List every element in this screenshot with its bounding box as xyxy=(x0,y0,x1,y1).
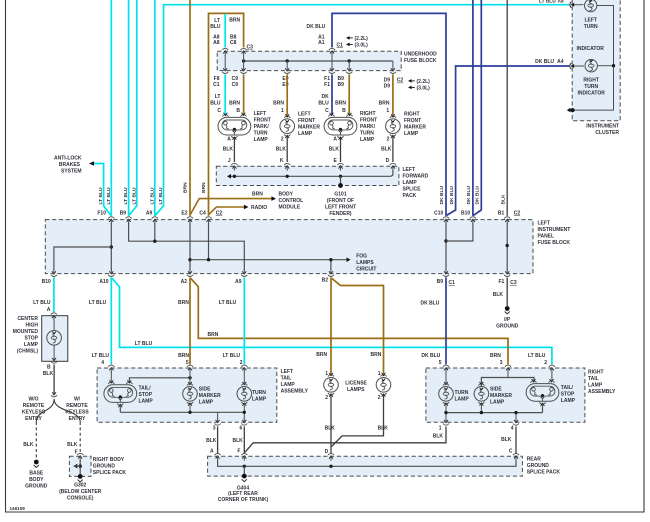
svg-text:MODULE: MODULE xyxy=(279,205,301,211)
ground G302 xyxy=(78,474,83,479)
svg-text:TURN: TURN xyxy=(584,24,598,30)
svg-text:RADIO: RADIO xyxy=(251,205,267,211)
svg-text:6: 6 xyxy=(240,425,243,431)
svg-text:A8: A8 xyxy=(558,0,564,4)
wire BLK left tail 6 to rear ground F xyxy=(243,427,245,454)
svg-text:(2.2L): (2.2L) xyxy=(417,79,431,85)
svg-text:A: A xyxy=(210,448,214,454)
left tail internal ground bus xyxy=(119,405,121,412)
instrument cluster connector A4 (right turn feed) xyxy=(570,63,571,69)
right side marker lamp xyxy=(474,387,489,402)
wire DK BLU B9 to right tail lamp 5 xyxy=(445,277,447,364)
svg-text:B2: B2 xyxy=(322,277,329,283)
wire LT BLU F8/C1 to left front park/turn lamp C xyxy=(224,74,226,114)
svg-text:TAIL: TAIL xyxy=(281,376,292,382)
svg-text:BODY: BODY xyxy=(279,192,294,198)
svg-text:A: A xyxy=(47,307,51,313)
wire BRN loop to C4 and underhood C3 pin B8 xyxy=(209,13,244,216)
wire LT BLU to F10 (from top) xyxy=(110,0,112,216)
svg-text:GROUND: GROUND xyxy=(25,484,48,490)
svg-text:A9: A9 xyxy=(146,210,153,216)
svg-text:LEFT: LEFT xyxy=(281,369,294,375)
base body ground symbol xyxy=(34,460,39,465)
svg-text:G101: G101 xyxy=(334,192,346,198)
left instrument panel fuse block box xyxy=(45,220,533,274)
svg-text:BRN: BRN xyxy=(208,332,219,338)
left tail internal top bus xyxy=(129,378,190,383)
svg-text:C2: C2 xyxy=(397,78,404,84)
svg-text:BRN: BRN xyxy=(229,100,240,106)
svg-text:MARKER: MARKER xyxy=(490,393,512,399)
svg-text:UNDERHOOD: UNDERHOOD xyxy=(404,52,437,58)
left turn indicator lamp xyxy=(574,4,583,6)
svg-text:BRAKES: BRAKES xyxy=(59,162,81,168)
svg-text:1: 1 xyxy=(439,425,442,431)
rear ground splice pack connectors A F D C xyxy=(215,453,221,455)
right front park/turn lamp xyxy=(324,117,357,135)
svg-text:W/: W/ xyxy=(74,396,81,402)
svg-text:LAMP: LAMP xyxy=(490,399,505,405)
svg-text:C3: C3 xyxy=(510,280,517,286)
svg-text:FRONT: FRONT xyxy=(254,117,271,123)
left front marker lamp xyxy=(280,119,295,134)
svg-text:PARK/: PARK/ xyxy=(254,124,270,130)
svg-text:2: 2 xyxy=(378,395,381,401)
right tail exits 1 and 4 xyxy=(443,424,449,426)
wire BRN B9 to right front park/turn lamp B xyxy=(348,74,350,114)
svg-text:LAMP: LAMP xyxy=(360,137,375,143)
svg-text:LAMP: LAMP xyxy=(252,397,267,403)
svg-text:F10: F10 xyxy=(97,210,106,216)
dashed BLK wire to right body ground splice pack xyxy=(79,422,81,453)
svg-text:MOUNTED: MOUNTED xyxy=(13,329,39,335)
svg-text:TURN: TURN xyxy=(360,130,374,136)
svg-text:B10: B10 xyxy=(42,279,51,285)
svg-text:BLK: BLK xyxy=(501,437,512,443)
svg-text:BLK: BLK xyxy=(501,194,507,205)
svg-text:1: 1 xyxy=(386,108,389,114)
center high mounted stop lamp (CHMSL) box xyxy=(42,316,68,362)
svg-text:RIGHT: RIGHT xyxy=(588,370,604,376)
svg-text:SPLICE PACK: SPLICE PACK xyxy=(93,470,127,476)
svg-text:LT BLU: LT BLU xyxy=(106,187,112,204)
wire LT BLU A10 branch to right tail lamp 2 xyxy=(112,278,552,364)
svg-text:TURN: TURN xyxy=(252,390,266,396)
svg-text:2: 2 xyxy=(325,395,328,401)
svg-text:LT BLU: LT BLU xyxy=(528,353,546,359)
svg-text:C10: C10 xyxy=(434,210,443,216)
svg-text:I/P: I/P xyxy=(504,317,511,323)
wire BRN E9 to left front marker lamp 1 xyxy=(286,74,288,116)
svg-text:BLK: BLK xyxy=(493,292,504,298)
CHMSL connector B bottom xyxy=(51,362,57,364)
svg-text:FRONT: FRONT xyxy=(404,118,421,124)
svg-text:GROUND: GROUND xyxy=(527,463,550,469)
svg-text:LAMP: LAMP xyxy=(561,398,576,404)
right turn indicator lamp xyxy=(574,65,584,67)
svg-text:ANTI-LOCK: ANTI-LOCK xyxy=(54,156,82,162)
instrument cluster box xyxy=(572,0,620,121)
body control module arrow xyxy=(271,196,276,201)
svg-text:LT: LT xyxy=(215,94,221,100)
split brace to base ground and G302 xyxy=(36,399,54,422)
wire BLK CHMSL B to keyless-entry split xyxy=(53,365,55,394)
wire BLK left marker 2 to splice K xyxy=(286,136,288,162)
left forward lamp splice pack connectors J K E D xyxy=(231,163,237,165)
svg-text:A: A xyxy=(227,137,231,143)
wire BLK left license 2 to rear ground D xyxy=(330,395,332,454)
left tail/stop lamp xyxy=(104,385,137,403)
svg-text:2: 2 xyxy=(544,360,547,366)
svg-text:MARKER: MARKER xyxy=(298,125,320,131)
svg-text:C: C xyxy=(509,448,513,454)
svg-text:J: J xyxy=(228,158,231,164)
wire BRN from E2 to body control module xyxy=(190,199,271,215)
svg-text:BLU: BLU xyxy=(210,100,221,106)
radio arrow xyxy=(244,205,249,210)
wire BRN to E2 (from top) xyxy=(189,0,191,216)
right tail/stop lamp xyxy=(526,384,559,402)
wire BRN A2 to left tail lamp 5 xyxy=(189,277,191,364)
svg-text:REMOTE: REMOTE xyxy=(23,403,45,409)
svg-text:LAMP: LAMP xyxy=(298,131,313,137)
svg-text:ASSEMBLY: ASSEMBLY xyxy=(588,389,616,395)
svg-text:F: F xyxy=(237,448,240,454)
svg-text:BRN: BRN xyxy=(379,100,390,106)
svg-text:A8: A8 xyxy=(213,40,220,46)
svg-text:A: A xyxy=(333,137,337,143)
wire BRN B2 to left license lamp 1 xyxy=(330,277,332,375)
svg-text:1: 1 xyxy=(325,371,328,377)
svg-text:LAMP: LAMP xyxy=(455,397,470,403)
svg-text:BLK: BLK xyxy=(67,442,78,448)
svg-text:DK BLU: DK BLU xyxy=(535,59,554,65)
left tail exits 3 and 6 xyxy=(215,424,221,426)
dashed BLK wire to base body ground xyxy=(35,422,37,460)
underhood internal wires xyxy=(224,55,226,67)
svg-text:MARKER: MARKER xyxy=(199,393,221,399)
I/P fuse block top connectors xyxy=(108,217,114,219)
svg-text:LAMP: LAMP xyxy=(404,131,419,137)
svg-text:FRONT: FRONT xyxy=(360,117,377,123)
wire LT BLU A10 to left tail lamp 4 xyxy=(110,277,112,364)
svg-text:LAMP: LAMP xyxy=(199,399,214,405)
wire DK BLU from right turn indicator A4 to C10 xyxy=(447,66,570,215)
svg-text:ASSEMBLY: ASSEMBLY xyxy=(281,389,309,395)
svg-text:CONTROL: CONTROL xyxy=(279,198,304,204)
svg-text:LT BLU: LT BLU xyxy=(539,0,556,4)
I/P internal wire B9-A9 xyxy=(129,223,245,271)
svg-text:4: 4 xyxy=(511,425,514,431)
splice pack ground tap to G101 xyxy=(340,176,342,184)
svg-text:BLU: BLU xyxy=(318,100,329,106)
svg-text:SYSTEM: SYSTEM xyxy=(61,169,82,175)
svg-text:REMOTE: REMOTE xyxy=(66,403,88,409)
engine variant arrows 2.2L/3.0L at C2 xyxy=(408,79,412,83)
right tail connector 3 xyxy=(505,365,511,367)
underhood bottom connectors xyxy=(222,72,228,74)
svg-text:BRN: BRN xyxy=(490,353,501,359)
svg-text:(FRONT OF: (FRONT OF xyxy=(327,198,354,204)
svg-text:B: B xyxy=(47,364,51,370)
wire DK BLU to B10 (from top) xyxy=(472,0,474,216)
svg-text:C1: C1 xyxy=(213,82,220,88)
right body ground splice pack internals xyxy=(79,460,81,475)
svg-text:LEFT: LEFT xyxy=(254,111,267,117)
svg-text:LT BLU: LT BLU xyxy=(149,187,155,204)
svg-text:B9: B9 xyxy=(120,210,127,216)
right turn lamp xyxy=(439,387,454,402)
ground G404 tap xyxy=(243,466,245,475)
svg-text:F1: F1 xyxy=(498,279,504,285)
svg-text:BLK: BLK xyxy=(378,426,389,432)
wire LT BLU to B9 (from top) xyxy=(128,0,130,216)
svg-text:BLK: BLK xyxy=(276,146,287,152)
svg-text:RIGHT: RIGHT xyxy=(404,112,420,118)
svg-text:FENDER): FENDER) xyxy=(329,211,352,217)
svg-text:B: B xyxy=(236,108,240,114)
svg-text:DK BLU: DK BLU xyxy=(475,186,481,205)
svg-text:BASE: BASE xyxy=(29,471,44,477)
svg-text:INDICATOR: INDICATOR xyxy=(578,90,606,96)
svg-text:A10: A10 xyxy=(99,279,108,285)
left front park/turn lamp xyxy=(218,117,251,135)
svg-text:F1: F1 xyxy=(324,82,330,88)
wire BLK to B1 (from top) xyxy=(506,0,508,216)
svg-text:C3: C3 xyxy=(247,45,254,51)
wire LT BLU B10 to CHMSL A xyxy=(53,277,55,312)
svg-text:LAMP: LAMP xyxy=(139,398,154,404)
I/P ground symbol xyxy=(505,306,510,311)
svg-text:BLK: BLK xyxy=(329,146,340,152)
anti-lock brakes system arrow xyxy=(89,161,94,166)
svg-text:TAIL/: TAIL/ xyxy=(139,385,152,391)
svg-text:CONSOLE): CONSOLE) xyxy=(67,496,94,502)
svg-text:BLK: BLK xyxy=(223,146,234,152)
right tail internal ground bus xyxy=(542,404,544,413)
instrument cluster connector A8 (left turn feed) xyxy=(570,2,571,8)
svg-text:A1: A1 xyxy=(318,40,325,46)
wire BLK left park/turn A to splice J xyxy=(233,138,235,162)
svg-text:LICENSE: LICENSE xyxy=(345,381,367,387)
svg-text:BLK: BLK xyxy=(325,426,336,432)
svg-text:LEFT: LEFT xyxy=(298,112,311,118)
svg-text:BRN: BRN xyxy=(229,18,240,24)
svg-text:DK: DK xyxy=(321,94,329,100)
svg-text:TURN: TURN xyxy=(584,84,598,90)
svg-text:C9: C9 xyxy=(232,82,239,88)
left tail lamp assembly box xyxy=(97,368,277,422)
svg-text:CIRCUIT: CIRCUIT xyxy=(356,267,376,273)
svg-text:PACK: PACK xyxy=(403,193,417,199)
wire DK BLU to B10 (slanted, from top) xyxy=(473,0,481,215)
svg-text:DK BLU: DK BLU xyxy=(421,301,440,307)
svg-text:LT BLU: LT BLU xyxy=(123,187,129,204)
svg-text:MARKER: MARKER xyxy=(404,125,426,131)
wire BLK F1 to I/P ground xyxy=(506,277,508,306)
svg-text:DK BLU: DK BLU xyxy=(449,186,455,205)
svg-text:SPLICE PACK: SPLICE PACK xyxy=(527,470,561,476)
wire LT BLU from anti-lock brakes system xyxy=(94,164,111,216)
svg-text:CENTER: CENTER xyxy=(17,316,38,322)
wire BRN from C4 to radio xyxy=(209,207,244,214)
svg-text:LT BLU: LT BLU xyxy=(98,187,104,204)
svg-text:LT BLU: LT BLU xyxy=(92,353,110,359)
svg-text:E2: E2 xyxy=(181,210,187,216)
svg-text:INSTRUMENT: INSTRUMENT xyxy=(538,227,571,233)
rear ground internal bus xyxy=(218,460,516,466)
svg-text:BRN: BRN xyxy=(178,300,189,306)
svg-text:DK BLU: DK BLU xyxy=(421,353,440,359)
svg-text:CLUSTER: CLUSTER xyxy=(595,130,619,136)
svg-text:RIGHT: RIGHT xyxy=(360,111,376,117)
svg-text:FRONT: FRONT xyxy=(298,118,315,124)
svg-text:C1: C1 xyxy=(449,280,456,286)
right body ground splice pack connector F xyxy=(77,453,83,455)
svg-text:4: 4 xyxy=(101,360,104,366)
svg-text:D: D xyxy=(386,158,390,164)
svg-text:C2: C2 xyxy=(514,210,521,216)
svg-text:(3.0L): (3.0L) xyxy=(417,85,431,91)
svg-text:A9: A9 xyxy=(235,279,242,285)
svg-text:K: K xyxy=(280,158,284,164)
svg-text:(2.2L): (2.2L) xyxy=(355,36,369,42)
svg-text:LT BLU: LT BLU xyxy=(219,300,237,306)
svg-text:A2: A2 xyxy=(181,279,188,285)
svg-text:LEFT FRONT: LEFT FRONT xyxy=(325,205,356,211)
svg-text:LAMP: LAMP xyxy=(24,342,39,348)
svg-text:(BELOW CENTER: (BELOW CENTER xyxy=(59,489,102,495)
wire BLK right marker 2 to splice D xyxy=(392,136,394,162)
svg-text:LT BLU: LT BLU xyxy=(135,341,153,347)
engine variant arrows 2.2L/3.0L at C1 xyxy=(346,36,350,40)
wire BLK right license 2 joining left license wire xyxy=(332,395,384,447)
right body ground splice pack box xyxy=(69,456,91,476)
svg-text:BRN: BRN xyxy=(182,182,188,193)
wire LT BLU to B9 (slanted, from top) xyxy=(129,0,137,215)
svg-text:LT BLU: LT BLU xyxy=(89,300,107,306)
svg-text:(3.0L): (3.0L) xyxy=(355,42,369,48)
wire LT BLU from instrument cluster A8 to A9 xyxy=(155,5,569,216)
svg-text:LAMP: LAMP xyxy=(281,382,296,388)
splice pack internal bus xyxy=(228,171,393,177)
svg-text:LAMP: LAMP xyxy=(254,137,269,143)
svg-text:TAIL/: TAIL/ xyxy=(561,385,574,391)
svg-text:W/O: W/O xyxy=(29,396,39,402)
wire LT BLU to A9 (from top) xyxy=(154,0,156,216)
svg-text:TAIL: TAIL xyxy=(588,376,599,382)
svg-text:3: 3 xyxy=(500,360,503,366)
svg-text:STOP: STOP xyxy=(139,392,153,398)
junction dots underhood bus xyxy=(242,59,245,62)
svg-text:BRN: BRN xyxy=(273,100,284,106)
svg-text:BLK: BLK xyxy=(381,146,392,152)
left tail connector 2 xyxy=(241,365,247,367)
svg-text:A4: A4 xyxy=(557,59,564,65)
svg-text:LEFT: LEFT xyxy=(403,167,416,173)
right front marker lamp xyxy=(386,119,401,134)
svg-text:G302: G302 xyxy=(74,483,86,489)
wire BRN D9 to right front marker lamp 1 xyxy=(392,74,394,116)
svg-text:D9: D9 xyxy=(384,83,391,89)
svg-text:BLK: BLK xyxy=(206,438,217,444)
svg-text:LAMP: LAMP xyxy=(403,180,418,186)
svg-text:LT BLU: LT BLU xyxy=(131,187,137,204)
svg-text:C8: C8 xyxy=(230,40,237,46)
svg-text:B10: B10 xyxy=(461,210,470,216)
wire DK BLU F1 to right front park/turn lamp C xyxy=(331,74,333,114)
svg-text:REAR: REAR xyxy=(527,457,542,463)
svg-text:HIGH: HIGH xyxy=(26,323,39,329)
svg-text:BLK: BLK xyxy=(233,438,244,444)
svg-text:BLU: BLU xyxy=(210,24,221,30)
svg-text:2: 2 xyxy=(281,137,284,143)
svg-text:B1: B1 xyxy=(498,210,505,216)
svg-text:LT: LT xyxy=(214,18,220,24)
cluster ground dot and stub arrow xyxy=(571,108,575,112)
svg-text:FORWARD: FORWARD xyxy=(403,174,429,180)
svg-text:TURN: TURN xyxy=(455,390,469,396)
svg-text:INSTRUMENT: INSTRUMENT xyxy=(586,124,619,130)
svg-text:5: 5 xyxy=(186,360,189,366)
svg-text:2: 2 xyxy=(240,360,243,366)
wire BLK right park/turn A to splice E xyxy=(340,138,342,162)
svg-text:B9: B9 xyxy=(437,279,444,285)
svg-text:SIDE: SIDE xyxy=(199,386,211,392)
svg-text:2: 2 xyxy=(387,137,390,143)
svg-text:146109: 146109 xyxy=(10,506,26,511)
svg-text:SPLICE: SPLICE xyxy=(403,187,422,193)
I/P fuse block bottom connectors xyxy=(51,275,57,277)
I/P internal wire E2-A2 and fog lamps circuit bus xyxy=(189,223,191,271)
svg-text:LAMPS: LAMPS xyxy=(356,260,374,266)
svg-text:FOG: FOG xyxy=(356,254,367,260)
svg-text:D: D xyxy=(325,449,329,455)
wire BLK left tail 3 to rear ground A xyxy=(217,427,219,454)
svg-text:GROUND: GROUND xyxy=(496,324,519,330)
svg-text:ENTRY: ENTRY xyxy=(25,416,42,422)
svg-text:INDICATOR: INDICATOR xyxy=(577,46,605,52)
svg-text:FUSE BLOCK: FUSE BLOCK xyxy=(538,240,571,246)
svg-text:5: 5 xyxy=(439,360,442,366)
rear ground splice pack box xyxy=(208,456,523,476)
wire BLK right tail 1 to rear ground F xyxy=(245,427,446,453)
left turn lamp xyxy=(237,387,252,402)
svg-text:BRN: BRN xyxy=(201,182,207,193)
svg-text:SIDE: SIDE xyxy=(490,386,502,392)
svg-text:C1: C1 xyxy=(337,42,344,48)
underhood fuse block internal bus xyxy=(244,60,393,62)
svg-text:STOP: STOP xyxy=(24,336,38,342)
right tail connector 2 xyxy=(549,365,555,367)
svg-text:C4: C4 xyxy=(199,210,206,216)
underhood fuse block box xyxy=(217,51,401,70)
svg-text:C: C xyxy=(325,108,329,114)
svg-text:LAMP: LAMP xyxy=(588,383,603,389)
svg-text:1: 1 xyxy=(378,371,381,377)
svg-text:KEYLESS: KEYLESS xyxy=(65,409,89,415)
left tail connector 5 xyxy=(187,365,193,367)
svg-text:C: C xyxy=(217,108,221,114)
wire LT BLU A9 to left tail lamp 2 xyxy=(243,277,245,364)
svg-text:LT BLU: LT BLU xyxy=(158,187,164,204)
left forward lamp splice pack box xyxy=(216,166,399,185)
left tail connector 4 xyxy=(108,365,114,367)
wire BLK right tail 4 to rear ground C xyxy=(515,427,517,454)
CHMSL connector A top xyxy=(51,313,57,315)
svg-text:TURN: TURN xyxy=(254,130,268,136)
svg-text:CORNER OF TRUNK): CORNER OF TRUNK) xyxy=(218,497,269,503)
